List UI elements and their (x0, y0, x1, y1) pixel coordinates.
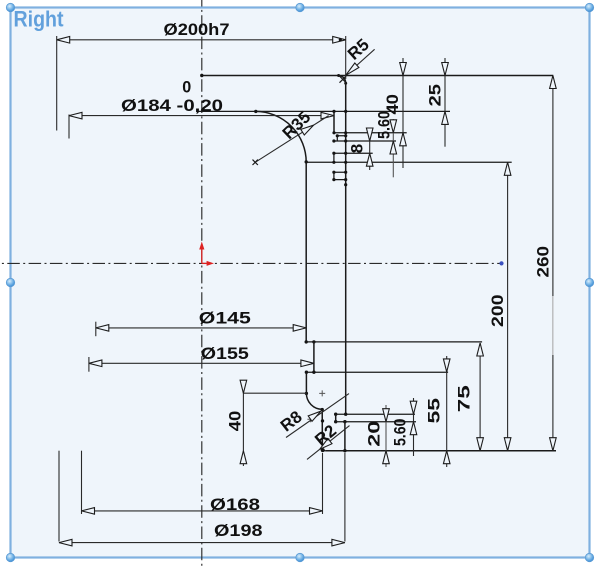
edge: Ø198 outer band (344, 422, 346, 451)
dim Ø145 left extension tick (95, 322, 97, 337)
centerline endpoint (blue) (499, 261, 503, 265)
groove vertices (332, 131, 335, 134)
vertical centerline (axis) (201, 0, 203, 567)
svg-text:8: 8 (348, 144, 367, 153)
groove B (334, 153, 373, 162)
dim Ø184 right arrow (321, 112, 334, 119)
dim 8 bottom arrow (366, 153, 373, 166)
vertex: step corner left (305, 340, 308, 343)
vertex: Ø198 band top (343, 420, 346, 423)
leader R2 arrow (320, 439, 332, 450)
svg-text:Ø184 -0,20: Ø184 -0,20 (121, 96, 223, 115)
dim Ø155 line (89, 362, 314, 364)
leader R5 arrow (346, 63, 359, 75)
svg-text:25: 25 (425, 84, 444, 107)
vertex: outer wall bottom (344, 413, 347, 416)
edge: counterbore floor (y=372.2) with extension to 55-dim (306, 371, 448, 373)
svg-text:200: 200 (488, 294, 507, 327)
dim 40 bottom arrow (400, 133, 407, 146)
svg-text:55: 55 (425, 398, 444, 424)
dim Ø198 right arrow (332, 539, 345, 546)
vertex: flange groove corner 1 (334, 413, 337, 416)
dim Ø168 left arrow (82, 508, 95, 515)
vertex: floor right (312, 371, 315, 374)
horizontal centerline (0, 262, 502, 264)
dim 5.60 lower top arrow (410, 401, 417, 414)
dim 75 top arrow (477, 343, 484, 356)
dim 8 top arrow (366, 128, 373, 141)
dim 40 top arrow (400, 63, 407, 76)
edge: flange top face (y=414.2) with extension (336, 413, 415, 415)
edge: top face (y=75.5) with extension to 260-dim (202, 75, 554, 77)
dim Ø168 left extension (81, 451, 83, 514)
vertex: flange groove corner 2 (334, 420, 337, 423)
dim 8 line (369, 128, 371, 170)
edge: outer wall (Ø200) down to bottom flange (345, 83, 347, 414)
svg-text:0: 0 (182, 77, 191, 96)
dim Ø145 line (96, 327, 306, 329)
dim 260 line (552, 76, 554, 451)
leader R8 arrow (308, 411, 321, 421)
vertex: top face at axis (200, 74, 203, 77)
svg-text:20: 20 (365, 421, 384, 447)
R35 center X mark (253, 160, 258, 165)
edge: bottom face (y=450.7) with extension to 260-dim (325, 450, 556, 452)
dim Ø184 left extension (68, 115, 70, 139)
dim 5.60 lower line (413, 398, 415, 456)
viewport handles (6, 3, 14, 11)
vertex: R8 end (321, 408, 324, 411)
dim Ø200h7 left arrow (57, 37, 70, 44)
vertex: step corner right (312, 340, 315, 343)
svg-text:Ø145: Ø145 (199, 309, 251, 328)
dim 40 left extension (y=393.2) (243, 392, 306, 394)
leader R2 (307, 426, 350, 460)
dim Ø168 right arrow (310, 508, 323, 515)
vertex: Ø198 band bottom (343, 449, 346, 452)
edge: 40-face (y=132.8) with extension (334, 132, 407, 134)
leader R35 arrow (301, 125, 314, 135)
dim Ø155 left arrow (89, 360, 102, 367)
edge: inner face under text (y=111.4) (196, 110, 334, 112)
groove A below 40-face (334, 136, 396, 141)
dim Ø168 right extension (322, 453, 324, 514)
R8 center mark (319, 390, 325, 396)
dim 20 line (385, 405, 387, 467)
dim Ø200h7 line (57, 39, 346, 41)
dim Ø145 right arrow (293, 325, 306, 332)
edge: 25-face (y=111.4) with extension (334, 110, 450, 112)
vertex: wall point (321, 419, 324, 422)
dim 200 line (507, 162, 509, 450)
dim 75 bottom arrow (477, 438, 484, 451)
svg-text:Right: Right (14, 6, 65, 31)
vertex: R35 end (305, 160, 308, 163)
edge: lower bore wall (305, 372, 307, 393)
svg-text:Ø200h7: Ø200h7 (164, 20, 230, 39)
svg-text:5.60: 5.60 (391, 419, 410, 447)
dim 55 bottom arrow (443, 451, 450, 464)
edge: flange inner wall Ø168 with fillet R2 to bottom face (322, 409, 325, 450)
groove C (334, 172, 346, 179)
edge: flange groove wall (335, 414, 337, 422)
edge: bore wall Ø145 (305, 162, 307, 342)
dim Ø200h7 right arrow (333, 37, 346, 44)
edge: Ø184 relief band (333, 111, 335, 132)
leader R35 (255, 116, 328, 163)
svg-text:75: 75 (455, 385, 474, 412)
dim 25 line (444, 58, 446, 147)
dim 5.60 lower bottom arrow (410, 422, 417, 435)
vertex: floor left (305, 371, 308, 374)
edge: counterbore wall Ø155 (313, 342, 315, 372)
edge: flange groove floor (y=421.7) with extension (336, 421, 416, 423)
dim 20 bottom arrow (383, 451, 390, 464)
dim 200 top arrow (504, 162, 511, 175)
dim Ø145 left arrow (96, 325, 109, 332)
vertex: R8 start (305, 392, 308, 395)
dim 40 left line (242, 380, 244, 466)
svg-text:Ø155: Ø155 (201, 344, 249, 363)
fillet R5 top-right corner (338, 76, 345, 83)
auxiliary point mark (307, 416, 313, 422)
dim Ø155 right arrow (301, 360, 314, 367)
dim 200 bottom arrow (504, 438, 511, 451)
dim 25 top arrow (442, 63, 449, 76)
arc R35 (face to bore) (256, 111, 306, 162)
dim 40 left top arrow (240, 380, 247, 393)
origin arrow up (red) (201, 246, 203, 263)
svg-text:260: 260 (534, 246, 553, 278)
dim Ø155 left extension tick (88, 357, 90, 372)
svg-text:Ø168: Ø168 (210, 495, 260, 514)
dim 55 line (446, 356, 448, 467)
svg-text:5.60: 5.60 (375, 111, 394, 139)
vertex: R5 tangent points (337, 74, 340, 77)
dim Ø184 left arrow (69, 112, 82, 119)
dim 5.60 upper bottom arrow (390, 141, 397, 154)
dim 20 top arrow (383, 409, 390, 422)
vertex: R35 start (254, 110, 257, 113)
origin arrow right (red) (202, 262, 210, 264)
dim Ø198 right extension (344, 453, 346, 542)
dim 40 left bottom arrow (240, 451, 247, 464)
arc R8 (bore to flange inner wall) (306, 393, 322, 409)
dim Ø198 left extension (58, 451, 60, 542)
dim Ø200h7 right extension (345, 36, 347, 79)
dim 75 line (479, 343, 481, 451)
dim 260 bottom arrow (550, 438, 557, 451)
dim 40 line (402, 58, 404, 168)
dim Ø184 line (69, 115, 334, 117)
edge: step face (y=341.9) with extension to 75-dim (306, 341, 482, 343)
vertex: R2 corner (321, 448, 325, 452)
dim 25 bottom arrow (442, 111, 449, 124)
leader R8 (286, 394, 349, 438)
svg-text:Ø198: Ø198 (214, 521, 263, 540)
dim Ø198 left arrow (59, 539, 72, 546)
dim Ø168 line (82, 510, 323, 512)
svg-text:40: 40 (225, 411, 244, 432)
virtual corner X mark (R5) (340, 76, 347, 83)
dim Ø198 line (59, 542, 345, 544)
leader R5 (346, 49, 375, 75)
dim Ø200h7 left extension (56, 36, 58, 131)
dim 260 top arrow (550, 76, 557, 89)
dim 55 top arrow (443, 359, 450, 372)
dim 5.60 upper line (392, 119, 394, 177)
dim 5.60 upper top arrow (390, 120, 397, 133)
edge: groove B floor / 200-dim reference (y=162.3) (306, 161, 512, 163)
